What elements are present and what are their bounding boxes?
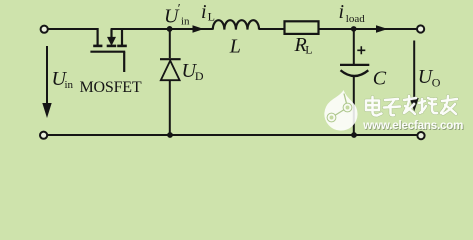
junction dot capacitor-bottom xyxy=(351,132,357,138)
terminal T4 output - xyxy=(417,132,424,139)
anode lead to bottom rail xyxy=(169,80,171,135)
gate lead xyxy=(123,52,125,72)
terminal T3 output + xyxy=(417,25,424,32)
substrate contact bar xyxy=(107,45,117,48)
svg-text:load: load xyxy=(346,13,365,25)
plus polarity mark xyxy=(357,46,365,54)
node A (resistor / capacitor junction dot) xyxy=(351,26,357,32)
voltage arrow UO (direction, down) xyxy=(410,41,419,112)
curved bottom plate xyxy=(341,70,369,76)
svg-text:L: L xyxy=(305,43,312,57)
straight top plate xyxy=(340,64,369,66)
svg-text:MOSFET: MOSFET xyxy=(80,79,142,96)
resistor RL box xyxy=(285,21,319,34)
gate plate xyxy=(90,51,125,53)
wire top-far-right: resistor to output terminal xyxy=(319,28,417,30)
svg-text:L: L xyxy=(229,35,241,57)
svg-text:′: ′ xyxy=(178,1,181,16)
inductor L coil xyxy=(213,20,259,29)
source lead xyxy=(121,28,123,45)
svg-text:i: i xyxy=(339,1,345,23)
terminal T2 input - xyxy=(40,132,47,139)
transistor Q1 MOSFET xyxy=(90,28,126,72)
wire top-left: input terminal to MOSFET drain xyxy=(48,28,97,30)
top lead from node A xyxy=(353,29,355,64)
svg-text:www.elecfans.com: www.elecfans.com xyxy=(362,119,463,132)
drain contact bar xyxy=(93,45,102,48)
current arrow iL xyxy=(193,25,204,32)
anode triangle (points up) xyxy=(161,61,180,81)
terminal T1 input + xyxy=(41,26,48,33)
diode UD freewheeling xyxy=(160,29,181,135)
wire bottom rail xyxy=(47,134,417,136)
wire top-middle: MOSFET source to node Uin' to inductor xyxy=(111,28,213,30)
svg-text:O: O xyxy=(432,75,441,89)
substrate lead with arrow xyxy=(110,29,112,38)
watermark chinese text dian-zi-fa-shao-you xyxy=(366,96,457,116)
svg-text:in: in xyxy=(65,79,74,91)
junction dot diode-bottom xyxy=(167,132,173,138)
watermark logo elecfans leaf xyxy=(324,90,357,131)
bottom lead to rail xyxy=(353,76,355,136)
cathode lead from node xyxy=(169,29,171,58)
source contact bar xyxy=(117,45,127,48)
drain lead xyxy=(96,28,98,45)
node Uin' (junction dot) xyxy=(167,26,173,32)
svg-text:in: in xyxy=(181,16,190,28)
current arrow iload xyxy=(376,25,388,32)
svg-text:C: C xyxy=(373,67,387,89)
capacitor C electrolytic xyxy=(340,29,369,135)
svg-text:i: i xyxy=(201,1,207,23)
svg-text:L: L xyxy=(208,9,215,23)
wire top-right: inductor to resistor xyxy=(259,28,284,30)
cathode bar xyxy=(160,58,181,60)
svg-text:D: D xyxy=(195,69,204,83)
voltage arrow Uin (direction, down) xyxy=(42,46,51,118)
